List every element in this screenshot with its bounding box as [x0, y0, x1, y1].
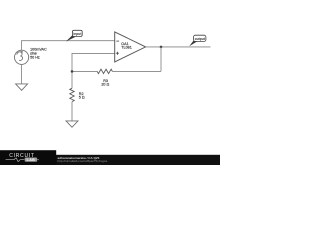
logo LAB box [25, 158, 37, 162]
svg-text:TL081: TL081 [121, 46, 131, 50]
svg-text:20 Ω: 20 Ω [101, 83, 109, 87]
label R2 / 5 Ohm [79, 92, 85, 100]
wire: non-inverting input net [72, 53, 115, 88]
node junction on output net [160, 46, 163, 49]
ground symbol under R2 [66, 121, 78, 127]
wire: feedback horizontal right segment [112, 70, 161, 72]
wire: input net from source top to op-amp inverting input [22, 41, 115, 51]
svg-text:sine: sine [30, 52, 37, 56]
svg-text:input: input [73, 32, 82, 36]
svg-text:100mVAC: 100mVAC [30, 48, 47, 52]
input flag [66, 30, 82, 41]
label R3 / 20 Ohm [101, 79, 109, 87]
svg-text:50 Hz: 50 Hz [30, 56, 40, 60]
wire: output net [146, 46, 211, 48]
label: 100mVAC sine 50 Hz [30, 48, 47, 60]
ground symbol under source [16, 84, 28, 90]
resistor R3 (20 Ohm) [97, 69, 112, 73]
wire: feedback horizontal left segment [72, 70, 97, 72]
plus sign (non-inverting input) [116, 52, 119, 54]
AC voltage source V1 (100mVAC sine 50 Hz) [15, 50, 29, 64]
footer bar [0, 155, 220, 165]
minus sign (inverting input) [116, 40, 119, 42]
svg-text:output: output [195, 37, 206, 41]
wire: source bottom to ground [21, 64, 23, 84]
node junction at plus-input net [71, 70, 74, 73]
footer text: author / circuit name [58, 156, 108, 163]
wire: R2 bottom to ground [71, 102, 73, 121]
svg-text:http://circuitlab.com/c/8par75: http://circuitlab.com/c/8par75n7egxa [58, 159, 108, 163]
op-amp OA1 TL081 [115, 32, 146, 62]
logo sine-wave stroke [6, 158, 25, 161]
svg-text:5 Ω: 5 Ω [79, 96, 85, 100]
CircuitLab logo box [0, 150, 56, 165]
wire: feedback from output node down [160, 47, 162, 72]
label OA1 / TL081 [121, 42, 131, 50]
output flag [189, 35, 206, 46]
svg-text:LAB: LAB [27, 158, 36, 162]
resistor R2 (5 Ohm) [70, 88, 74, 101]
